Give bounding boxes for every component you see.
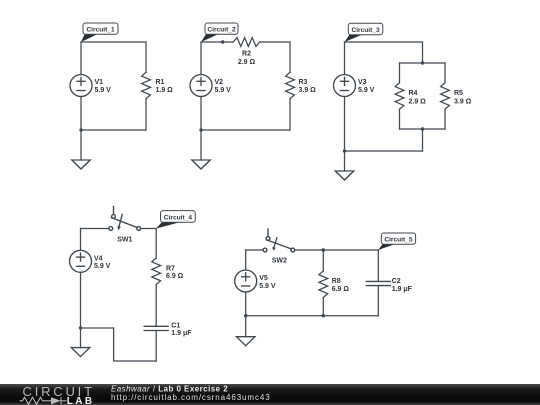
- wire: [81, 129, 146, 131]
- ground: [72, 160, 90, 169]
- voltage source V1: [70, 75, 92, 97]
- voltage source V4: [70, 250, 92, 272]
- wire: [245, 316, 247, 337]
- label V3 value: [358, 79, 375, 94]
- resistor R3: [286, 42, 295, 130]
- label R4 value: [409, 90, 427, 106]
- resistor R7: [152, 258, 161, 326]
- wire: [201, 41, 233, 43]
- label V1 value: [95, 79, 112, 94]
- wire: [260, 41, 290, 43]
- wire: [201, 129, 290, 131]
- label R2 value: [238, 51, 256, 66]
- wire: [80, 97, 82, 131]
- resistor R8: [319, 250, 328, 316]
- node junction: [343, 149, 346, 152]
- resistor R5: [441, 63, 450, 129]
- node junction: [199, 128, 202, 131]
- label V2 value: [215, 79, 232, 94]
- node junction: [79, 128, 82, 131]
- node junction: [322, 248, 325, 251]
- node label Circuit_2: [201, 23, 238, 42]
- label V5 value: [259, 275, 276, 290]
- node junction: [421, 127, 424, 130]
- wire: [345, 150, 423, 152]
- wire: [344, 151, 346, 171]
- node label Circuit_5: [378, 233, 415, 250]
- wire: [295, 249, 379, 251]
- wire: [141, 228, 157, 230]
- wire: [81, 41, 146, 43]
- wire: [345, 42, 423, 63]
- label R3 value: [299, 79, 317, 94]
- logo resistor-diode glyph: [20, 397, 67, 404]
- node junction: [221, 40, 224, 43]
- wire: [400, 128, 446, 130]
- wire: [80, 328, 82, 348]
- wire: [246, 249, 263, 251]
- ground: [71, 348, 89, 357]
- node label Circuit_4: [156, 211, 195, 229]
- node junction: [244, 314, 247, 317]
- wire: [422, 129, 424, 151]
- label C2 value: [392, 278, 413, 293]
- svg-text:http://circuitlab.com/csrna463: http://circuitlab.com/csrna463umc43: [111, 393, 271, 402]
- wire: [80, 42, 82, 75]
- ground: [335, 171, 353, 180]
- wire: [81, 228, 108, 230]
- node junction: [79, 326, 82, 329]
- svg-text:LAB: LAB: [67, 396, 95, 405]
- label V4 value: [94, 255, 111, 270]
- wire: [155, 229, 157, 259]
- wire: [246, 315, 379, 317]
- resistor R4: [395, 63, 404, 129]
- node junction: [322, 314, 325, 317]
- ground: [192, 160, 210, 169]
- voltage source V3: [334, 75, 356, 97]
- wire: [80, 130, 82, 160]
- wire: [400, 62, 446, 64]
- label R8 value: [332, 278, 350, 293]
- switch SW1: [109, 207, 141, 231]
- label R7 value: [166, 265, 184, 280]
- wire: [200, 42, 202, 75]
- CircuitLab logo wordmark: [20, 384, 271, 405]
- capacitor C1: [144, 326, 168, 361]
- wire: [200, 130, 202, 160]
- ground: [237, 337, 255, 346]
- resistor R1: [142, 42, 151, 130]
- label C1 value: [171, 322, 192, 337]
- node junction: [421, 61, 424, 64]
- wire: [245, 250, 247, 270]
- label R5 value: [454, 90, 472, 106]
- wire: [81, 328, 157, 361]
- capacitor C2: [366, 250, 390, 316]
- switch SW2: [263, 229, 295, 252]
- label R1 value: [156, 79, 174, 94]
- wire: [344, 42, 346, 75]
- voltage source V5: [235, 270, 257, 292]
- wire: [80, 272, 82, 328]
- wire: [344, 97, 346, 152]
- wire: [80, 229, 82, 251]
- wire: [200, 97, 202, 131]
- node label Circuit_1: [81, 23, 118, 42]
- node label Circuit_3: [345, 23, 383, 42]
- voltage source V2: [190, 75, 212, 97]
- resistor R2: [233, 38, 260, 47]
- wire: [245, 292, 247, 316]
